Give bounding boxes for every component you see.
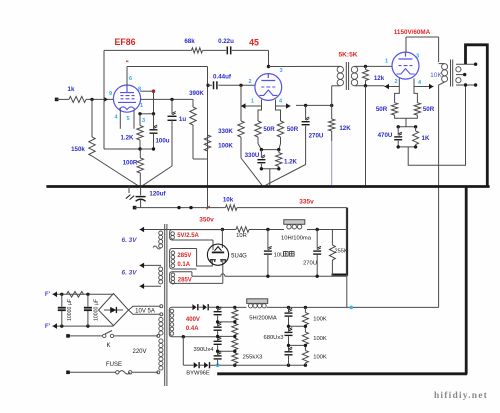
label K xyxy=(106,343,110,349)
node grid 45 junction xyxy=(239,84,242,87)
wire 0.22u to 45 plate xyxy=(232,50,269,66)
wire thick bottom xyxy=(217,372,467,375)
wire NFB vertical xyxy=(104,50,140,149)
node 0.44uf junction xyxy=(206,84,209,87)
svg-text:0.44uf: 0.44uf xyxy=(213,73,232,80)
wire 10R leads xyxy=(226,228,285,231)
svg-text:100K: 100K xyxy=(218,142,233,149)
wire 400V top xyxy=(0,0,1,1)
wire choke out xyxy=(267,306,439,309)
wire thick right vertical xyxy=(465,187,468,374)
wire 5V top to tube xyxy=(212,240,214,250)
wire grid arrow xyxy=(104,97,109,103)
label pin 4 xyxy=(114,115,118,121)
svg-text:5K:5K: 5K:5K xyxy=(338,52,357,59)
svg-text:1: 1 xyxy=(385,59,388,65)
svg-text:3: 3 xyxy=(279,68,282,74)
resistor F bleed xyxy=(67,292,84,298)
diode D1 xyxy=(192,304,197,310)
label 0.4A xyxy=(186,326,199,332)
wire 50R join U3 xyxy=(395,115,418,127)
svg-text:F': F' xyxy=(45,291,51,298)
svg-text:3: 3 xyxy=(142,118,145,124)
wire pin8 screen xyxy=(140,90,153,92)
diode D2 xyxy=(203,304,208,310)
svg-text:K: K xyxy=(106,343,110,349)
watermark hifidiy.net xyxy=(434,391,488,401)
capacitor 680U 2 xyxy=(285,326,293,345)
svg-text:1150V/60MA: 1150V/60MA xyxy=(394,29,431,36)
wire NFB top xyxy=(104,49,192,51)
wire F rail bottom xyxy=(53,323,114,329)
wire 270U rail st2 xyxy=(296,104,333,107)
wire 50R join xyxy=(258,137,281,150)
wire 470U bottom rail xyxy=(397,145,418,148)
switch K xyxy=(103,331,160,338)
svg-text:10000 µF: 10000 µF xyxy=(67,299,73,321)
wire 330K to ground xyxy=(241,137,262,185)
capacitor 680U 1 xyxy=(285,307,293,326)
wire 12K lead xyxy=(331,131,333,141)
wire U3 heater leg right xyxy=(414,79,417,103)
wire cathode bottom rail xyxy=(138,147,155,150)
wire U2 heater leg right xyxy=(276,100,281,122)
svg-text:1: 1 xyxy=(140,103,143,109)
capacitor 270U st2 xyxy=(302,105,324,164)
label pin 3 xyxy=(142,118,145,124)
choke 10H/100ma xyxy=(281,220,312,242)
label F2 xyxy=(45,323,51,330)
wire ladder link 3 xyxy=(216,350,237,353)
wire 6.3V b top xyxy=(140,263,161,269)
resistor 100K 3 xyxy=(302,345,308,365)
capacitor 0.22u xyxy=(218,38,234,54)
resistor 1k xyxy=(68,86,86,102)
wire plate top rail xyxy=(127,66,208,68)
wire choke to corner xyxy=(307,228,347,231)
wire secondary bottom xyxy=(355,84,385,87)
capacitor 10U xyxy=(264,230,294,277)
wire cathode return xyxy=(408,85,465,165)
svg-text:150k: 150k xyxy=(71,146,85,153)
wire primary bottom xyxy=(332,86,341,106)
resistor 390K xyxy=(189,90,204,125)
svg-text:6. 3V: 6. 3V xyxy=(122,270,138,277)
wire cathode U2 ground xyxy=(269,169,271,186)
node cyan dot a xyxy=(216,363,220,367)
svg-text:10k: 10k xyxy=(223,197,234,204)
wire secondary bottom tap xyxy=(456,83,477,86)
wire link680 1 xyxy=(287,325,307,328)
winding 285V b xyxy=(170,272,223,284)
svg-text:10K: 10K xyxy=(430,72,442,79)
svg-text:1: 1 xyxy=(251,99,254,105)
capacitor 0.44uf xyxy=(208,73,255,89)
resistor 330K xyxy=(218,85,244,137)
svg-text:12k: 12k xyxy=(374,75,385,82)
wire 150k to ground xyxy=(92,156,138,185)
wire D3 D4 xyxy=(199,364,204,366)
wire 6.3V b bottom xyxy=(140,283,161,289)
wire thick speaker loop xyxy=(466,45,488,187)
label 5U4G xyxy=(231,253,247,259)
label 100K 2 xyxy=(313,336,327,342)
svg-text:0.22u: 0.22u xyxy=(218,38,234,45)
resistor 10k xyxy=(223,197,237,211)
capacitor 120uf xyxy=(136,187,167,208)
svg-text:1.2K: 1.2K xyxy=(284,158,298,165)
svg-text:EF86: EF86 xyxy=(114,37,135,47)
label U2 pin 1 xyxy=(251,99,254,105)
label pin 1 xyxy=(140,103,143,109)
svg-text:680Ux3: 680Ux3 xyxy=(264,335,284,341)
resistor 255k 4 xyxy=(232,350,238,366)
svg-text:470U: 470U xyxy=(378,132,393,139)
label 220V xyxy=(132,349,146,355)
svg-text:1K: 1K xyxy=(422,135,430,142)
wire 45 plate rail xyxy=(269,65,339,67)
wire psu bottom rail xyxy=(192,274,347,278)
wire 12K blue drop xyxy=(331,141,333,185)
label 255kX3 xyxy=(243,354,263,360)
svg-text:50R: 50R xyxy=(263,126,275,133)
resistor 255k 1 xyxy=(232,307,238,320)
wire input to grid xyxy=(86,98,114,101)
svg-text:50R: 50R xyxy=(376,106,388,113)
label pin 8 xyxy=(138,87,141,93)
svg-text:100K: 100K xyxy=(313,317,327,323)
wire 100K riser xyxy=(207,67,209,208)
node rail red tick xyxy=(207,206,210,209)
winding 5V xyxy=(170,230,223,240)
resistor 150k xyxy=(71,99,95,156)
svg-text:F': F' xyxy=(45,323,51,330)
wire bottom rail supply xyxy=(210,364,308,367)
transformer 5K:5K secondary coil xyxy=(351,66,357,85)
resistor 50R b xyxy=(277,121,298,137)
winding 400V xyxy=(169,307,217,337)
wire 68k to 0.22u xyxy=(203,49,227,51)
winding 6.3V a xyxy=(153,231,163,249)
svg-text:100K: 100K xyxy=(313,354,327,360)
label 100K 3 xyxy=(313,354,327,360)
transformer 5K:5K label xyxy=(338,52,357,59)
label 390Ux4 xyxy=(194,347,215,353)
label U3 pin 3 xyxy=(416,54,419,60)
capacitor 390U 3 xyxy=(214,336,222,351)
choke 5H/200MA xyxy=(247,299,277,322)
svg-text:9: 9 xyxy=(109,91,112,97)
svg-text:255kX3: 255kX3 xyxy=(243,354,263,360)
svg-text:FUSE: FUSE xyxy=(106,362,122,368)
node 45 plate junction xyxy=(267,65,270,68)
wire D2 to choke xyxy=(208,306,246,309)
svg-text:220V: 220V xyxy=(132,349,146,355)
label 10V 5A xyxy=(135,308,155,314)
svg-text:3: 3 xyxy=(416,54,419,60)
svg-text:100K: 100K xyxy=(313,336,327,342)
label 285V b xyxy=(178,277,192,283)
svg-text:5H/200MA: 5H/200MA xyxy=(249,316,277,322)
capacitor 470U xyxy=(378,127,403,147)
label pin 5 xyxy=(126,116,129,122)
wire U3 heater arrow right xyxy=(414,84,434,90)
svg-text:0.4A: 0.4A xyxy=(186,326,199,332)
label 0.1A xyxy=(177,262,190,268)
resistor 50R c xyxy=(376,103,398,115)
wire 330U bottom rail xyxy=(260,167,281,170)
label 680Ux3 xyxy=(264,335,284,341)
label 350v xyxy=(199,217,214,224)
wire D1 D2 xyxy=(198,306,203,308)
svg-text:390K: 390K xyxy=(189,90,204,97)
capacitor 100u xyxy=(150,114,170,149)
svg-text:6: 6 xyxy=(129,76,132,82)
svg-text:100u: 100u xyxy=(155,138,169,145)
label U2 pin 2 xyxy=(248,79,251,85)
svg-text:2: 2 xyxy=(248,79,251,85)
wire 400V bottom xyxy=(182,335,185,338)
resistor 50R d xyxy=(414,103,435,115)
transformer 10K primary coil xyxy=(442,64,448,82)
transformer 5K:5K primary coil xyxy=(337,66,343,85)
svg-text:1k: 1k xyxy=(68,86,75,93)
svg-text:1.2K: 1.2K xyxy=(120,135,134,142)
wire screen drop xyxy=(153,91,155,114)
resistor 10R xyxy=(236,227,249,239)
wire secondary top xyxy=(355,65,393,68)
resistor 100K 2 xyxy=(302,326,308,345)
label pin 6 xyxy=(129,76,132,82)
resistor 100K xyxy=(204,135,233,151)
wire 10k to corner xyxy=(237,208,347,308)
node input terminal xyxy=(55,98,69,102)
wire 390K bottom xyxy=(193,125,208,159)
wire 330U top rail xyxy=(260,148,281,151)
capacitor 390U 2 xyxy=(214,322,222,337)
capacitor 680U 3 xyxy=(285,345,293,365)
svg-text:255K: 255K xyxy=(335,249,348,255)
wire U2 heater leg left xyxy=(258,100,262,122)
resistor 1.2K U2 xyxy=(276,150,298,169)
winding 285V a xyxy=(170,249,197,270)
capacitor 330U xyxy=(245,150,266,169)
resistor 255k 3 xyxy=(232,335,238,350)
resistor 12k grid xyxy=(363,66,385,85)
wire centertap return xyxy=(191,272,193,276)
svg-text:330K: 330K xyxy=(218,128,233,135)
svg-text:10U: 10U xyxy=(274,252,285,258)
svg-text:hifidiy.net: hifidiy.net xyxy=(434,391,488,401)
capacitor 390U 1 xyxy=(214,307,222,322)
label U3 pin 1 xyxy=(385,59,388,65)
wire link680 2 xyxy=(287,344,307,347)
capacitor 270U psu xyxy=(303,230,321,277)
wire ladder link 2 xyxy=(216,335,237,338)
label 1150V/60MA xyxy=(394,29,431,36)
svg-text:10R: 10R xyxy=(236,233,247,239)
svg-text:BYW96E: BYW96E xyxy=(186,371,210,377)
wire bridge to 10V xyxy=(129,306,161,314)
svg-text:285V: 285V xyxy=(178,277,192,283)
wire 285Vb to plate xyxy=(222,260,224,283)
label U2 pin 4 xyxy=(279,99,283,105)
wire secondary top tap xyxy=(456,62,477,65)
wire 1u to ground xyxy=(143,166,172,185)
label pin 9 xyxy=(109,91,112,97)
bridge rectifier xyxy=(99,294,129,326)
diode D3 xyxy=(194,362,199,368)
svg-text:6. 3V: 6. 3V xyxy=(122,237,138,244)
tube 45 label xyxy=(249,38,259,48)
label BYW96E xyxy=(186,371,210,377)
winding 10V terminals xyxy=(160,305,163,316)
wire 470U top rail xyxy=(397,125,418,128)
transformer 10K core xyxy=(451,60,453,87)
label U2 pin 3 xyxy=(279,68,282,74)
winding 6.3V b xyxy=(159,267,163,284)
transformer 10K label xyxy=(430,72,442,79)
wire 400V drop xyxy=(183,337,193,366)
winding 220V xyxy=(159,317,163,370)
resistor 1K xyxy=(413,127,430,147)
label 6.3V b xyxy=(122,270,138,277)
label F1 xyxy=(45,291,51,298)
wire U3 heater leg left xyxy=(395,78,400,103)
label 400V xyxy=(186,317,200,323)
resistor 1.2K cathode xyxy=(120,114,143,149)
resistor 50R a xyxy=(255,121,275,137)
svg-text:390Ux4: 390Ux4 xyxy=(194,347,215,353)
wire cathode top rail xyxy=(138,112,155,115)
resistor 100K 1 xyxy=(302,307,308,326)
wire 5U4G anode feed xyxy=(221,230,223,249)
wire 270U to ground xyxy=(266,165,306,186)
wire thick B+ marker xyxy=(332,208,348,275)
fuse symbol xyxy=(116,371,132,374)
svg-text:270U: 270U xyxy=(309,133,324,140)
svg-text:335v: 335v xyxy=(299,198,314,205)
resistor 100R xyxy=(123,149,144,185)
label 5V/2.5A xyxy=(177,233,199,239)
label U3 pin 4 xyxy=(418,80,422,86)
tube 45 U3 xyxy=(392,52,419,79)
svg-text:5U4G: 5U4G xyxy=(231,253,247,259)
transformer 10K secondary coil xyxy=(456,67,461,83)
wire 350v rail xyxy=(140,227,226,233)
svg-text:5: 5 xyxy=(126,116,129,122)
wire U2 heater arrow left xyxy=(241,103,262,109)
wire K line xyxy=(66,334,158,338)
svg-text:330U: 330U xyxy=(245,152,260,159)
svg-text:2: 2 xyxy=(394,79,397,85)
resistor 255K xyxy=(329,230,347,277)
wire F rail top xyxy=(53,292,114,298)
wire 285Va to plate xyxy=(197,249,213,267)
wire FUSE line xyxy=(66,371,160,375)
resistor 12K xyxy=(329,105,352,132)
svg-text:50R: 50R xyxy=(287,126,299,133)
svg-text:12K: 12K xyxy=(339,125,351,132)
resistor 255k 2 xyxy=(232,320,238,335)
wire pin1 rail xyxy=(141,98,193,101)
svg-text:270U: 270U xyxy=(303,260,317,266)
node cyan dot b xyxy=(349,306,353,310)
wire primary bottom B+ xyxy=(439,82,445,308)
svg-text:10H/100ma: 10H/100ma xyxy=(281,236,312,242)
wire U3 plate riser xyxy=(406,37,445,64)
wire U3 heater arrow left xyxy=(385,84,400,90)
svg-text:68k: 68k xyxy=(184,38,195,45)
svg-text:120uf: 120uf xyxy=(149,191,166,198)
tube 45 U2 xyxy=(255,74,282,101)
wire heater stub pin4 xyxy=(119,108,121,129)
transformer core xyxy=(165,224,167,386)
wire ground bus thick xyxy=(46,185,489,188)
svg-text:350v: 350v xyxy=(199,217,214,224)
svg-text:5V/2.5A: 5V/2.5A xyxy=(177,233,199,239)
label 335v xyxy=(299,198,314,205)
svg-text:10V 5A: 10V 5A xyxy=(135,308,155,314)
label 6.3V a xyxy=(122,237,138,244)
label FUSE xyxy=(106,362,122,368)
node rail end xyxy=(133,206,137,210)
capacitor 390U 4 xyxy=(214,351,222,365)
wire ladder link 1 xyxy=(216,320,237,323)
capacitor 1u xyxy=(168,99,187,166)
label 285V a xyxy=(177,253,191,259)
svg-text:400V: 400V xyxy=(186,317,200,323)
wire primary top lead xyxy=(337,65,340,67)
diode D4 xyxy=(204,362,209,368)
tube EF86 label xyxy=(114,37,135,47)
wire B+ rail 335v xyxy=(135,206,226,209)
label U3 pin 2 xyxy=(394,79,397,85)
resistor 68k xyxy=(184,38,202,53)
svg-text:0.1A: 0.1A xyxy=(177,262,190,268)
svg-text:285V: 285V xyxy=(177,253,191,259)
tube 5U4G xyxy=(207,244,228,265)
svg-text:1u: 1u xyxy=(179,116,186,123)
capacitor 10000uF b xyxy=(84,294,100,326)
wire plate pin6 riser xyxy=(126,61,128,87)
wire heater stub pin5 xyxy=(133,110,135,129)
svg-text:45: 45 xyxy=(249,38,259,48)
ground symbol xyxy=(126,187,134,200)
tube EF86 U1 xyxy=(113,85,140,112)
wire secondary bottom ground xyxy=(365,86,367,186)
node screen red dot xyxy=(152,89,156,93)
svg-text:50R: 50R xyxy=(423,106,435,113)
wire U2 heater arrow right xyxy=(276,103,291,109)
transformer 5K:5K core xyxy=(346,62,348,90)
wire secondary mid tap xyxy=(456,73,466,76)
capacitor 10000uF a xyxy=(58,294,73,326)
label 100K 1 xyxy=(313,317,327,323)
svg-text:100R: 100R xyxy=(123,160,138,167)
